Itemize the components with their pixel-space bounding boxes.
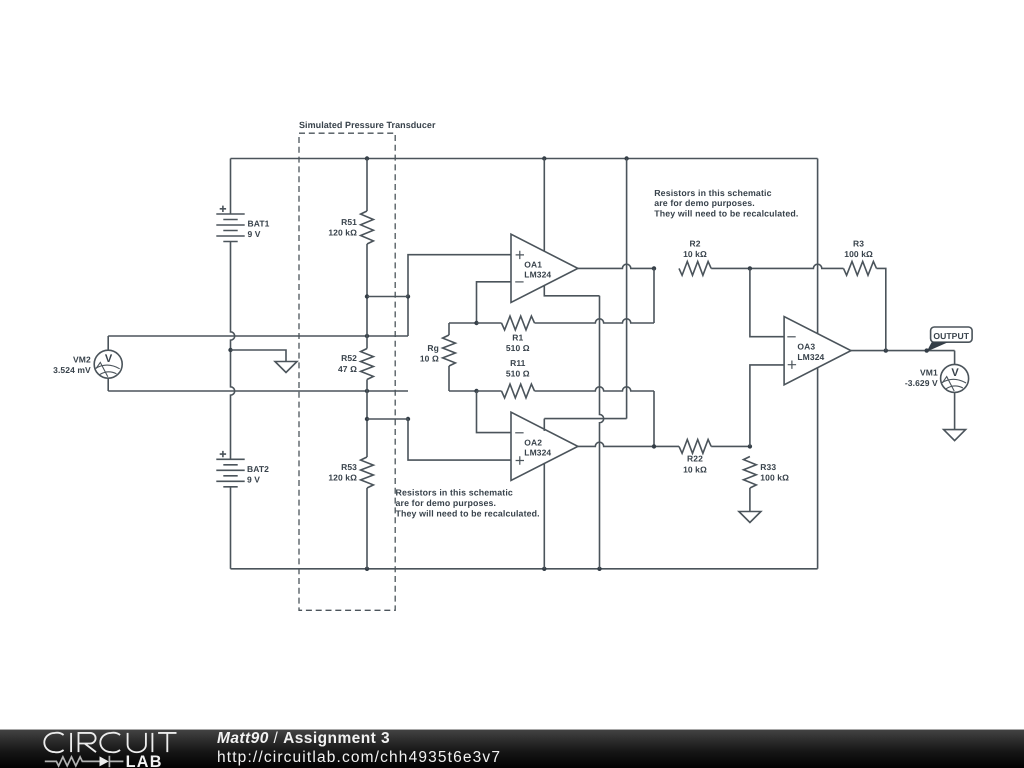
svg-text:OA1: OA1 — [524, 259, 542, 269]
label Rg — [420, 343, 439, 364]
wire R2 right lead — [711, 264, 843, 268]
node VM2 top junctions — [365, 334, 369, 338]
svg-text:R22: R22 — [687, 454, 703, 464]
wire R1 left lead — [477, 322, 502, 324]
battery BAT1 — [216, 206, 244, 242]
wire OA1 - input — [477, 282, 512, 323]
label OA2 — [524, 437, 551, 457]
voltmeter VM1 — [941, 364, 969, 392]
svg-text:LM324: LM324 — [524, 448, 551, 458]
OA1 plus mark — [516, 251, 524, 259]
wire R1 to OA1 out — [653, 268, 655, 323]
wire OA1 V+ pin — [543, 159, 545, 252]
svg-text:10 kΩ: 10 kΩ — [683, 249, 707, 259]
svg-text:OA3: OA3 — [797, 341, 815, 351]
wire R11 to OA2 out — [653, 391, 655, 446]
label R22 — [683, 454, 707, 475]
ground GND R33 — [739, 512, 761, 523]
wire OA3 output — [851, 350, 955, 352]
wire OA1 output — [578, 264, 654, 268]
node R2 right dot — [748, 266, 752, 270]
label R53 — [328, 462, 357, 483]
wire Rg bottom lead — [448, 366, 450, 391]
svg-text:Resistors in this schematic: Resistors in this schematic — [396, 488, 513, 498]
OA2 minus mark — [515, 432, 523, 434]
svg-text:R51: R51 — [341, 217, 357, 227]
svg-text:V: V — [105, 353, 113, 365]
wire VM2 top — [108, 336, 408, 350]
svg-text:OUTPUT: OUTPUT — [933, 331, 969, 341]
note text 2 — [396, 488, 540, 519]
battery BAT2 — [216, 451, 244, 487]
svg-text:VM1: VM1 — [920, 368, 938, 378]
wire R53 bottom lead — [366, 488, 368, 569]
svg-text:100 kΩ: 100 kΩ — [844, 249, 873, 259]
resistor Rg — [443, 335, 456, 366]
wire OA2 - input — [477, 391, 512, 433]
svg-text:Rg: Rg — [427, 343, 439, 353]
CircuitLab logo resistor-diode glyph — [45, 756, 124, 768]
node OA1 output dot — [652, 266, 656, 270]
label VM2 — [53, 355, 91, 376]
wire OA3 + input — [750, 365, 784, 447]
node Rg bottom dot — [474, 389, 478, 393]
op-amp OA1 — [511, 234, 578, 302]
wire VM2 top corner up — [407, 297, 409, 337]
label OUTPUT — [933, 331, 969, 341]
wire link lower — [367, 418, 408, 420]
footer url — [217, 750, 501, 766]
resistor R22 — [679, 440, 711, 454]
svg-text:510 Ω: 510 Ω — [506, 343, 530, 353]
CircuitLab logo text CIRCUIT — [44, 733, 176, 753]
label BAT1 — [248, 219, 270, 240]
svg-text:-3.629 V: -3.629 V — [905, 378, 938, 388]
op-amp OA2 — [511, 412, 578, 480]
svg-text:120 kΩ: 120 kΩ — [328, 472, 357, 482]
wire OA2 output — [578, 442, 679, 446]
svg-text:Resistors in this schematic: Resistors in this schematic — [654, 188, 771, 198]
wire BAT2- to bottom rail — [230, 487, 232, 569]
node chain dots upper — [365, 294, 410, 298]
OA1 minus mark — [515, 281, 523, 283]
svg-text:are for demo purposes.: are for demo purposes. — [654, 198, 755, 208]
svg-text:510 Ω: 510 Ω — [506, 369, 530, 379]
label R11 — [506, 358, 530, 379]
OA2 plus mark — [516, 456, 524, 464]
wire R11 right lead — [535, 387, 655, 391]
node Rg top dot — [474, 321, 478, 325]
svg-text:They will need to be recalcula: They will need to be recalculated. — [396, 508, 540, 518]
wire OA3 V+ pin — [817, 159, 819, 334]
label BAT2 — [247, 464, 269, 485]
svg-text:They will need to be recalcula: They will need to be recalculated. — [654, 209, 798, 219]
resistor R3 — [844, 262, 877, 276]
voltmeter VM2 — [94, 350, 122, 378]
wire R51 top lead — [366, 159, 368, 212]
footer bar — [0, 729, 1024, 768]
wire R51-R52 lead — [366, 244, 368, 349]
dashed box Simulated Pressure Transducer — [299, 133, 395, 610]
note text 1 — [654, 188, 798, 219]
resistor R33 — [744, 457, 757, 489]
svg-text:LM324: LM324 — [524, 270, 551, 280]
wire OA1 V- jog — [544, 286, 599, 296]
node: top rail junction dots — [365, 156, 629, 160]
wire OA2 V- pin — [543, 463, 545, 569]
svg-text:3.524 mV: 3.524 mV — [53, 365, 91, 375]
svg-text:BAT2: BAT2 — [247, 464, 269, 474]
wire link upper — [367, 296, 408, 298]
wire R1 right lead — [535, 319, 655, 323]
footer title — [217, 731, 390, 747]
label R52 — [338, 353, 357, 374]
wire OA1 + input — [408, 255, 511, 297]
svg-text:R1: R1 — [512, 333, 523, 343]
svg-text:R33: R33 — [760, 462, 776, 472]
label Simulated Pressure Transducer — [299, 120, 436, 130]
svg-text:10 kΩ: 10 kΩ — [683, 464, 707, 474]
node bottom rail dots — [365, 567, 602, 571]
svg-text:LM324: LM324 — [797, 352, 824, 362]
wire OA3 - input — [750, 268, 784, 336]
svg-text:BAT1: BAT1 — [248, 219, 270, 229]
label R33 — [760, 462, 789, 483]
wire Rg top link — [449, 322, 477, 324]
wire OA3 V- pin — [817, 368, 819, 569]
ground GND1 — [275, 362, 297, 373]
svg-text:R53: R53 — [341, 462, 357, 472]
svg-text:100 kΩ: 100 kΩ — [760, 472, 789, 482]
resistor R11 — [502, 384, 535, 398]
resistor R51 — [361, 211, 374, 244]
wire R3 right lead — [877, 268, 886, 350]
ground GND VM1 — [944, 430, 966, 441]
resistor R2 — [679, 262, 711, 276]
wire ground bottom rail — [231, 568, 818, 570]
svg-text:are for demo purposes.: are for demo purposes. — [396, 498, 497, 508]
node VM2 bottom junction — [365, 389, 369, 393]
wire BAT1- to BAT2+ vertical — [231, 242, 235, 460]
wire Rg top lead — [448, 323, 450, 335]
svg-text:VM2: VM2 — [73, 355, 91, 365]
label R2 — [683, 239, 707, 260]
flag OUTPUT box — [931, 327, 973, 342]
wire ground link — [231, 350, 287, 362]
wire R33 bottom lead — [749, 488, 751, 512]
node output wedge dot — [925, 348, 929, 352]
svg-text:V: V — [951, 367, 959, 379]
resistor R53 — [361, 457, 374, 488]
svg-text:120 kΩ: 120 kΩ — [328, 228, 357, 238]
svg-text:R11: R11 — [510, 358, 526, 368]
wire OA2 + input — [408, 419, 511, 460]
node R22 right dot — [748, 444, 752, 448]
flag OUTPUT wedge — [927, 342, 948, 351]
svg-text:10 Ω: 10 Ω — [420, 354, 439, 364]
svg-text:R2: R2 — [689, 239, 700, 249]
svg-text:9 V: 9 V — [248, 229, 261, 239]
svg-text:R52: R52 — [341, 353, 357, 363]
wire BAT1 top lead — [230, 159, 232, 215]
node chain dots lower — [365, 417, 410, 421]
svg-text:Simulated Pressure Transducer: Simulated Pressure Transducer — [299, 120, 436, 130]
label R1 — [506, 333, 530, 354]
svg-text:9 V: 9 V — [247, 475, 260, 485]
wire VM1 bottom — [954, 392, 956, 429]
OA3 minus mark — [787, 336, 795, 338]
label R51 — [328, 217, 357, 238]
wire +9V to OA2 V+ — [544, 159, 626, 431]
label OA3 — [797, 341, 824, 361]
svg-text:47 Ω: 47 Ω — [338, 364, 357, 374]
OA3 plus mark — [788, 361, 796, 369]
wire OA1 V- down — [600, 296, 604, 569]
label R3 — [844, 239, 873, 260]
wire Rg bottom link — [449, 390, 477, 392]
svg-text:LAB: LAB — [126, 753, 163, 768]
resistor R1 — [502, 316, 535, 330]
label VM1 — [905, 368, 938, 389]
label OA1 — [524, 259, 551, 279]
wire R11 left lead — [477, 390, 502, 392]
svg-text:R3: R3 — [853, 239, 864, 249]
wire +9V top rail — [231, 158, 818, 160]
node OA2 output dot — [652, 444, 656, 448]
wire VM1 top — [954, 351, 956, 365]
svg-text:OA2: OA2 — [524, 437, 542, 447]
wire R22 right lead — [711, 445, 750, 447]
wire VM2 bottom — [108, 378, 408, 391]
wire R52-R53 lead — [366, 380, 368, 458]
node battery midpoint — [228, 348, 232, 352]
resistor R52 — [361, 349, 374, 380]
op-amp OA3 — [784, 317, 851, 385]
node OA3 output dot — [884, 348, 888, 352]
